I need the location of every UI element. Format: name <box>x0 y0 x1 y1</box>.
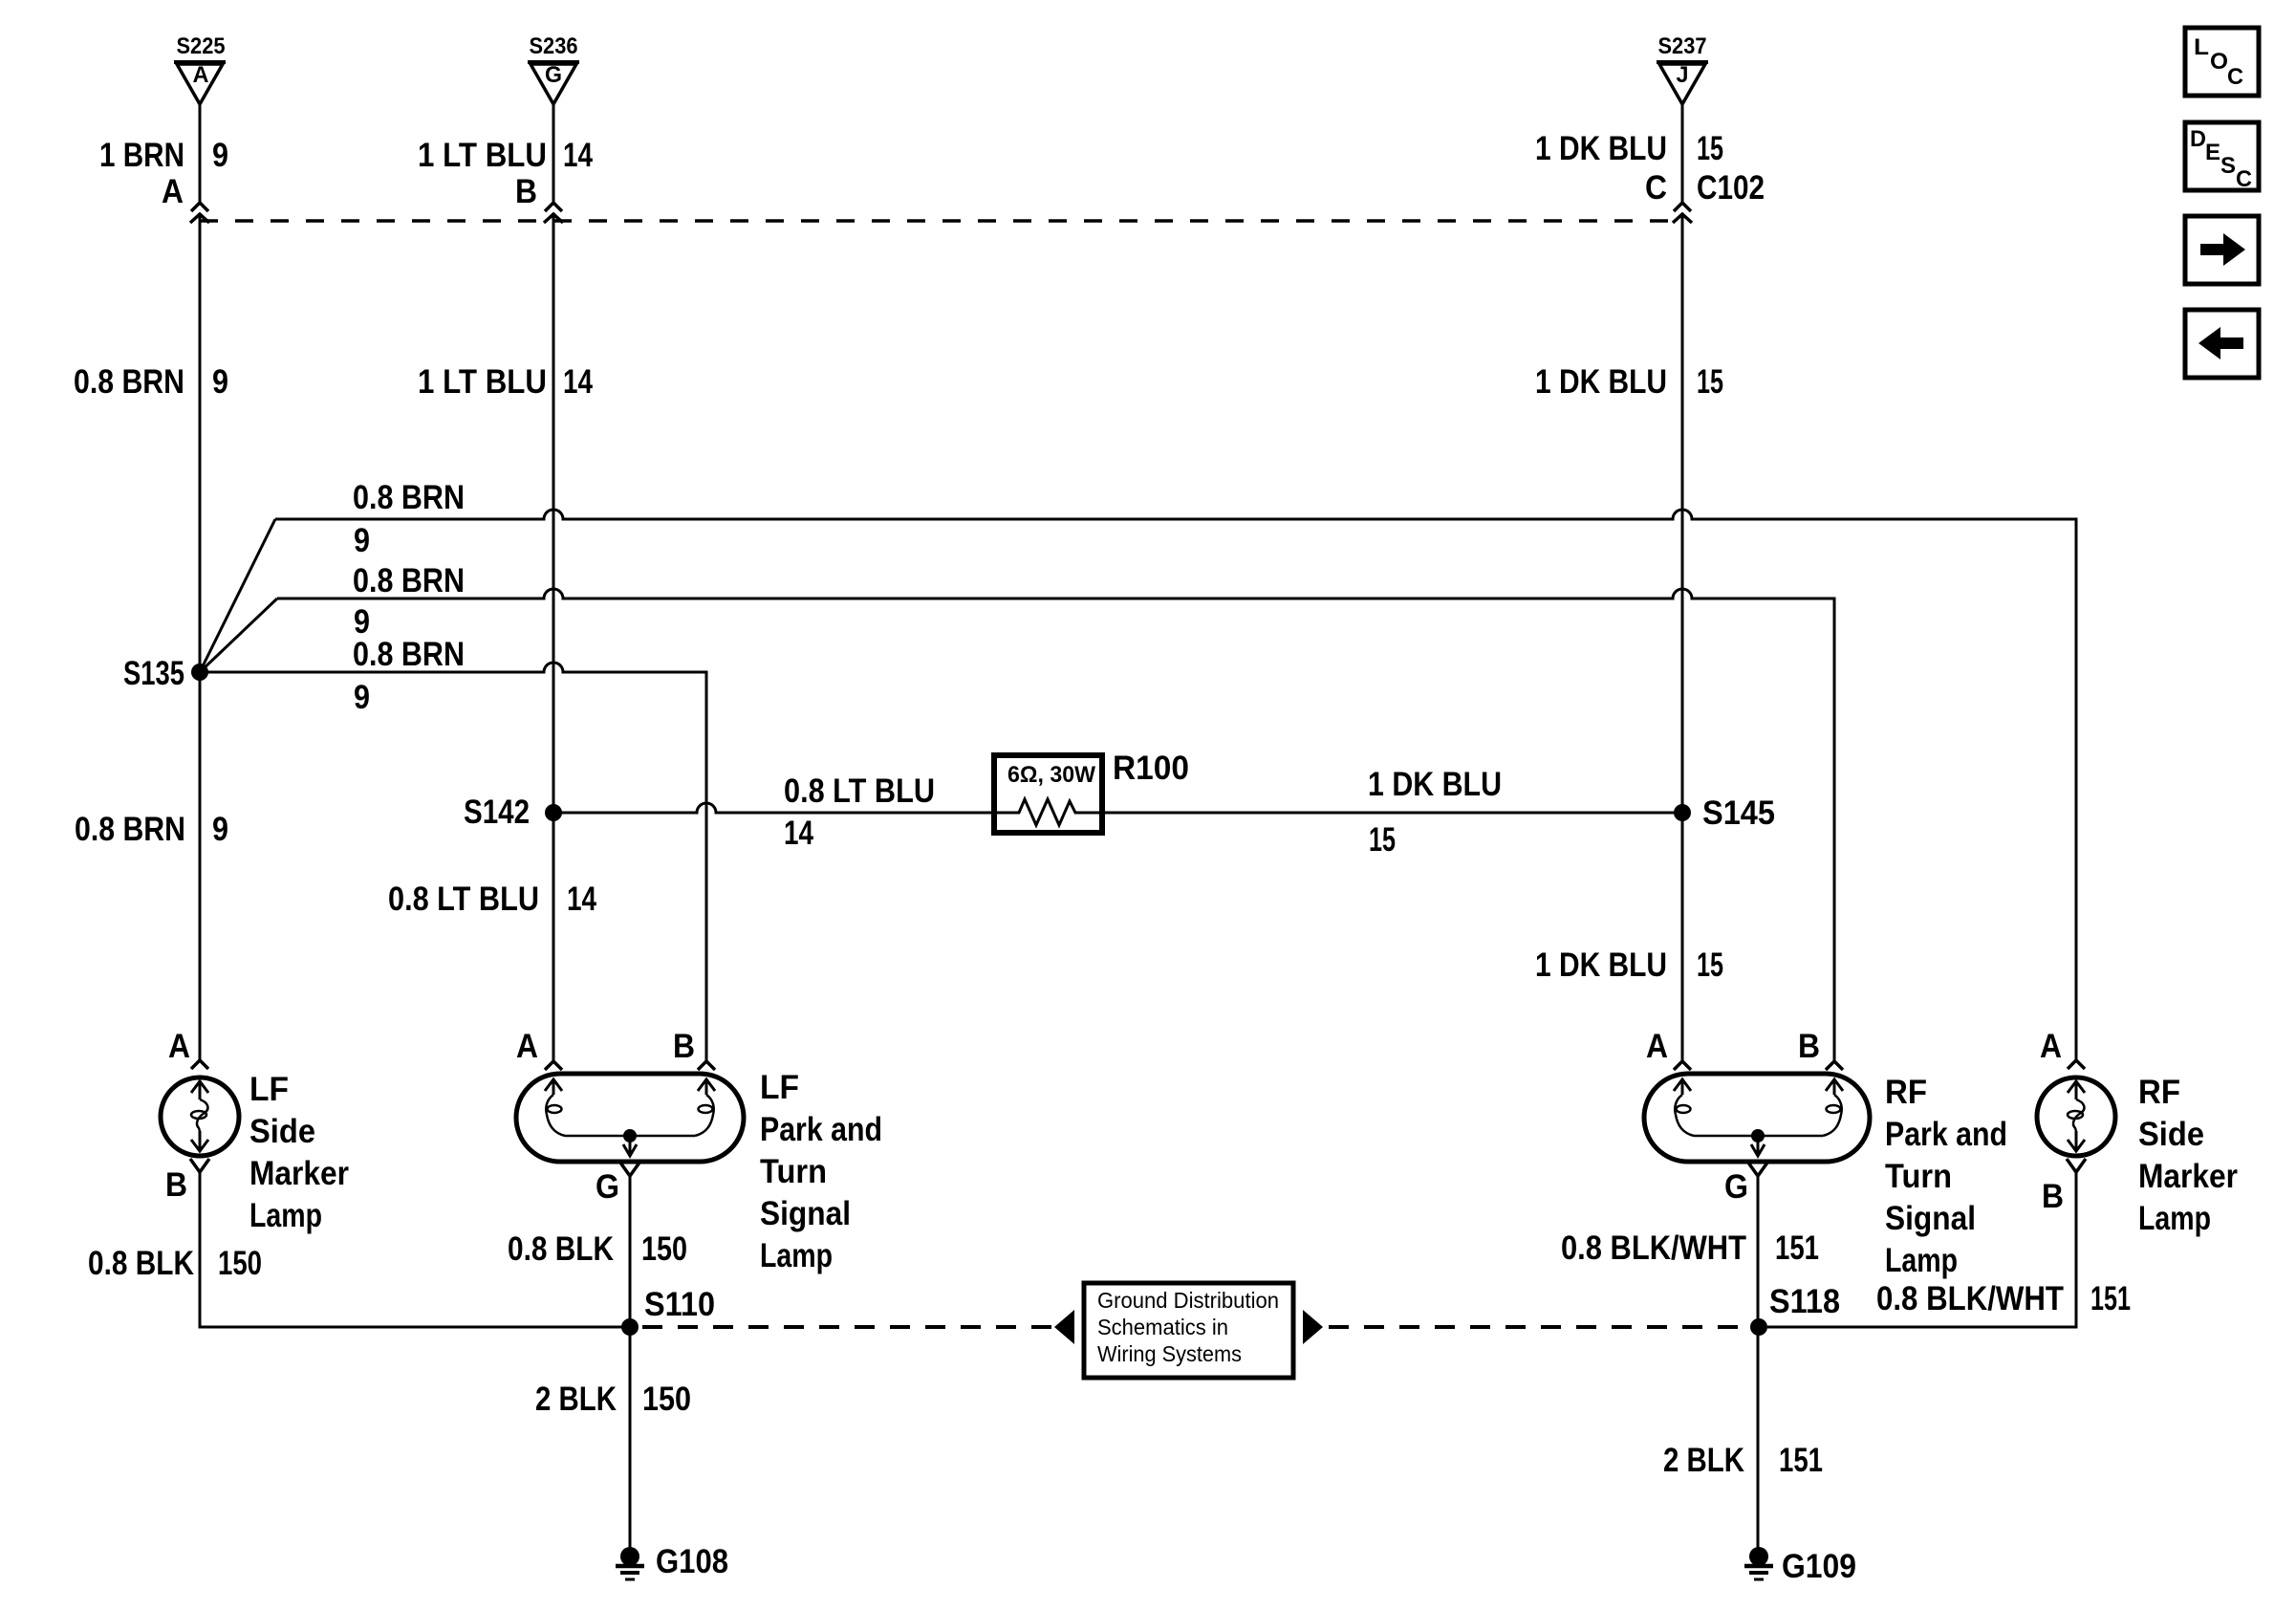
svg-text:A: A <box>168 1028 190 1065</box>
svg-text:1 BRN: 1 BRN <box>99 137 184 174</box>
svg-text:RF: RF <box>2138 1074 2180 1111</box>
svg-text:1 LT BLU: 1 LT BLU <box>418 363 547 401</box>
connector fork RF side marker B <box>2067 1159 2086 1172</box>
connector fork RF park G <box>1748 1163 1767 1176</box>
svg-text:1 DK BLU: 1 DK BLU <box>1535 130 1667 167</box>
svg-text:G108: G108 <box>656 1543 728 1580</box>
svg-text:1 DK BLU: 1 DK BLU <box>1535 363 1667 401</box>
svg-text:O: O <box>2210 49 2228 75</box>
branch 2 wire (0.8 BRN 9 to RF park lamp B) <box>277 589 1834 1061</box>
svg-text:9: 9 <box>212 811 228 848</box>
RF park and turn signal lamp <box>1644 1074 1870 1162</box>
wire W3 upper (1 DK BLU from S237 to C102) <box>1681 104 1684 203</box>
svg-text:LF: LF <box>760 1069 799 1106</box>
diagonal from S135 to branch 2 <box>200 598 277 672</box>
splice S118 <box>1750 1318 1767 1336</box>
svg-text:LF: LF <box>249 1071 289 1108</box>
svg-text:0.8 BRN: 0.8 BRN <box>353 562 465 599</box>
splice S135 <box>191 664 208 681</box>
svg-text:G: G <box>1724 1168 1748 1206</box>
svg-text:0.8 BRN: 0.8 BRN <box>74 363 184 401</box>
svg-text:B: B <box>2042 1178 2064 1215</box>
nav box left arrow <box>2185 310 2259 378</box>
wire W1 lower (to LF side marker) <box>199 214 202 1060</box>
svg-text:E: E <box>2205 140 2220 165</box>
connector chevron RF side marker A <box>2068 1060 2085 1069</box>
nav box DESC <box>2185 122 2259 192</box>
svg-text:A: A <box>2040 1028 2062 1065</box>
svg-text:Lamp: Lamp <box>2138 1200 2211 1237</box>
svg-text:15: 15 <box>1369 821 1396 859</box>
svg-text:2 BLK: 2 BLK <box>1663 1442 1744 1479</box>
wire W1 upper (1 BRN from S225 to C102) <box>199 104 202 203</box>
connector chevron LF park B <box>698 1061 715 1070</box>
svg-text:14: 14 <box>784 815 813 852</box>
svg-text:S225: S225 <box>177 33 226 59</box>
ground distribution reference box <box>1084 1283 1293 1378</box>
connector fork LF side marker B <box>190 1159 209 1172</box>
svg-text:0.8 BLK: 0.8 BLK <box>508 1230 614 1268</box>
svg-text:S135: S135 <box>123 655 184 692</box>
svg-text:14: 14 <box>563 137 593 174</box>
splice symbol S237 <box>1657 33 1708 104</box>
branch 1 wire (0.8 BRN 9 to RF side marker) <box>275 510 2076 1060</box>
svg-text:150: 150 <box>642 1381 691 1418</box>
LF side marker lamp <box>161 1077 239 1156</box>
svg-text:0.8 BRN: 0.8 BRN <box>353 636 465 673</box>
svg-text:14: 14 <box>567 881 596 918</box>
svg-text:Side: Side <box>249 1113 315 1150</box>
svg-text:Signal: Signal <box>1885 1200 1976 1237</box>
svg-text:14: 14 <box>563 363 593 401</box>
svg-text:S236: S236 <box>530 33 578 59</box>
dashed ground link left <box>642 1325 1051 1329</box>
svg-text:Park and: Park and <box>760 1111 882 1148</box>
resistor wire right (1 DK BLU 15) <box>1102 812 1682 815</box>
svg-text:Park and: Park and <box>1885 1116 2007 1153</box>
svg-text:B: B <box>165 1166 187 1204</box>
diagonal from S135 to branch 1 <box>200 519 275 672</box>
svg-text:15: 15 <box>1697 130 1723 167</box>
svg-text:L: L <box>2194 34 2209 60</box>
nav box right arrow <box>2185 216 2259 284</box>
wire LF park G down (0.8 BLK 150) <box>629 1176 632 1548</box>
ground G108 <box>616 1543 728 1580</box>
svg-text:0.8 BLK: 0.8 BLK <box>88 1245 194 1282</box>
svg-text:0.8 BRN: 0.8 BRN <box>353 479 465 516</box>
svg-text:A: A <box>162 173 184 210</box>
svg-text:B: B <box>673 1028 695 1065</box>
splice S145 <box>1674 804 1691 821</box>
wire W2 lower (to LF park lamp A) <box>552 214 555 1061</box>
arrow out of box (right) <box>1303 1310 1323 1344</box>
svg-text:S237: S237 <box>1658 33 1707 59</box>
svg-text:15: 15 <box>1697 363 1723 401</box>
connector fork LF park G <box>620 1163 639 1176</box>
svg-text:S: S <box>2220 153 2236 179</box>
connector chevron RF park A <box>1674 1061 1691 1070</box>
svg-text:1 DK BLU: 1 DK BLU <box>1535 946 1667 984</box>
splice S142 <box>545 804 562 821</box>
svg-text:C: C <box>2227 64 2243 90</box>
svg-text:G109: G109 <box>1782 1548 1856 1585</box>
svg-text:151: 151 <box>1775 1229 1819 1267</box>
svg-text:6Ω, 30W: 6Ω, 30W <box>1007 762 1095 788</box>
connector chevron LF park A <box>545 1061 562 1070</box>
LF park and turn signal lamp <box>516 1074 744 1162</box>
svg-text:Signal: Signal <box>760 1195 851 1232</box>
svg-text:A: A <box>516 1028 538 1065</box>
svg-text:Turn: Turn <box>760 1153 827 1190</box>
wire LF side marker B down (0.8 BLK 150) <box>200 1172 622 1327</box>
svg-text:150: 150 <box>218 1245 262 1282</box>
svg-text:0.8 BLK/WHT: 0.8 BLK/WHT <box>1561 1229 1746 1267</box>
svg-text:J: J <box>1677 62 1689 88</box>
connector chevrons W1 at C102 <box>190 203 209 223</box>
svg-text:9: 9 <box>212 363 228 401</box>
svg-text:D: D <box>2190 126 2206 152</box>
svg-text:2 BLK: 2 BLK <box>535 1381 617 1418</box>
svg-text:Marker: Marker <box>2138 1158 2238 1195</box>
svg-text:9: 9 <box>354 522 370 559</box>
svg-text:150: 150 <box>641 1230 687 1268</box>
ground G109 <box>1744 1547 1856 1585</box>
splice symbol S236 <box>528 33 579 104</box>
svg-text:Marker: Marker <box>249 1155 349 1192</box>
svg-text:9: 9 <box>354 679 370 716</box>
svg-text:S110: S110 <box>644 1286 715 1323</box>
connector C102 dashed line <box>200 219 1682 223</box>
svg-text:Lamp: Lamp <box>249 1197 322 1234</box>
svg-text:R100: R100 <box>1113 750 1189 787</box>
resistor R100 <box>994 750 1189 833</box>
svg-text:151: 151 <box>1779 1442 1823 1479</box>
splice symbol S225 <box>174 33 226 104</box>
wire RF side marker B down (0.8 BLK/WHT 151) <box>1767 1172 2076 1327</box>
splice S110 <box>621 1318 639 1336</box>
svg-text:B: B <box>515 173 537 210</box>
svg-text:C: C <box>2236 166 2252 192</box>
svg-text:Schematics in: Schematics in <box>1097 1315 1228 1339</box>
svg-text:0.8 LT BLU: 0.8 LT BLU <box>388 881 539 918</box>
svg-text:0.8 BLK/WHT: 0.8 BLK/WHT <box>1876 1280 2064 1317</box>
svg-text:A: A <box>193 62 209 88</box>
svg-text:C: C <box>1645 169 1667 207</box>
svg-text:Wiring Systems: Wiring Systems <box>1097 1341 1242 1366</box>
connector chevrons W2 at C102 <box>544 203 563 223</box>
svg-text:1 LT BLU: 1 LT BLU <box>418 137 547 174</box>
svg-text:C102: C102 <box>1697 169 1765 207</box>
wire W3 lower (to RF park lamp A) <box>1681 214 1684 1061</box>
branch 3 wire (0.8 BRN 9 to LF park lamp B) <box>200 663 706 1061</box>
svg-text:0.8 LT BLU: 0.8 LT BLU <box>784 772 935 810</box>
svg-text:Lamp: Lamp <box>1885 1242 1958 1279</box>
dashed ground link right <box>1329 1325 1747 1329</box>
svg-text:G: G <box>596 1168 619 1206</box>
svg-text:Side: Side <box>2138 1116 2204 1153</box>
svg-text:Turn: Turn <box>1885 1158 1952 1195</box>
nav box LOC <box>2185 28 2259 96</box>
wire RF park G down (0.8 BLK/WHT 151) <box>1757 1176 1760 1549</box>
svg-text:Lamp: Lamp <box>760 1237 833 1274</box>
connector chevron RF park B <box>1826 1061 1843 1070</box>
svg-text:S118: S118 <box>1769 1283 1840 1320</box>
svg-text:B: B <box>1798 1028 1820 1065</box>
wire W2 upper (1 LT BLU from S236 to C102) <box>552 104 555 203</box>
connector chevrons W3 at C102 <box>1673 203 1692 223</box>
svg-text:1 DK BLU: 1 DK BLU <box>1368 766 1502 803</box>
svg-text:A: A <box>1646 1028 1668 1065</box>
arrow into box (left) <box>1054 1310 1074 1344</box>
svg-text:G: G <box>545 62 562 88</box>
svg-text:0.8 BRN: 0.8 BRN <box>75 811 185 848</box>
svg-text:RF: RF <box>1885 1074 1927 1111</box>
svg-text:Ground Distribution: Ground Distribution <box>1097 1288 1279 1313</box>
RF side marker lamp <box>2037 1077 2115 1156</box>
connector chevron LF side marker A <box>191 1060 208 1069</box>
svg-text:9: 9 <box>212 137 228 174</box>
svg-text:151: 151 <box>2090 1280 2131 1317</box>
svg-text:15: 15 <box>1697 946 1723 984</box>
svg-text:S145: S145 <box>1702 794 1775 832</box>
svg-text:S142: S142 <box>464 794 530 831</box>
resistor wire left (0.8 LT BLU 14) <box>553 803 994 813</box>
